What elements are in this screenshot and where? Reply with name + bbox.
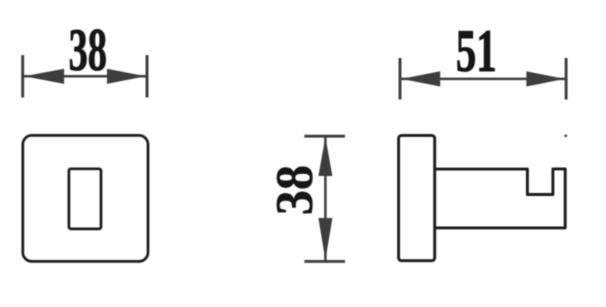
dimension 38 (top-left horizontal): [23, 55, 147, 97]
right arrowhead: [107, 69, 146, 84]
left arrowhead: [24, 69, 64, 84]
dimension line: [24, 75, 146, 78]
front view: inner rectangle: [69, 169, 101, 229]
left extension tick: [399, 58, 402, 100]
right extension tick: [565, 58, 568, 100]
bottom extension tick: [304, 260, 345, 263]
left extension tick: [21, 55, 24, 97]
svg-text:38: 38: [69, 17, 107, 84]
left arrowhead: [402, 71, 441, 86]
stray speck: [564, 134, 567, 137]
dimension 51 (top-right horizontal): [400, 58, 566, 100]
side view: hook arm profile: [435, 169, 566, 228]
front view: outer rounded square: [23, 135, 148, 261]
dimension line: [324, 138, 327, 261]
right extension tick: [146, 55, 149, 97]
side view: wall plate: [399, 135, 435, 260]
down arrowhead: [318, 218, 332, 260]
dimension line: [402, 78, 565, 81]
dimension 38 (middle vertical): [304, 136, 345, 261]
svg-text:38: 38: [266, 165, 324, 215]
svg-text:51: 51: [456, 19, 497, 86]
up arrowhead: [318, 137, 332, 176]
right arrowhead: [526, 71, 564, 86]
top extension tick: [304, 135, 345, 138]
